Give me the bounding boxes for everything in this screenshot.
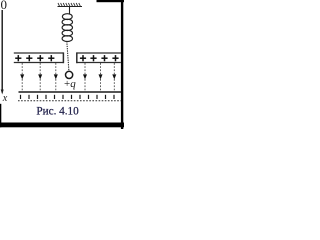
top plate right segment (77, 52, 121, 63)
border bottom bar (0, 123, 124, 128)
arrowheads on field lines (20, 74, 116, 79)
border left lower (0, 104, 1, 128)
svg-text:0: 0 (1, 0, 8, 12)
ceiling line (58, 6, 83, 8)
bottom plate bottom line (18, 100, 121, 102)
ceiling hatching (58, 3, 80, 6)
top plate left segment (14, 52, 64, 63)
border top-right wedge (97, 0, 125, 2)
bottom plate top line (19, 91, 121, 93)
plus signs right plate (80, 55, 119, 61)
svg-text:x: x (2, 93, 8, 104)
spring coil (62, 14, 72, 42)
spring bottom wire (67, 41, 69, 71)
axis arrowhead (1, 90, 4, 95)
charge ball (66, 71, 73, 78)
bottom plate hatch ticks (21, 95, 115, 99)
field lines right (85, 63, 114, 92)
border right (121, 0, 123, 129)
spring top wire (69, 7, 71, 15)
svg-text:Рис. 4.10: Рис. 4.10 (36, 105, 79, 117)
field lines left (22, 63, 56, 92)
axis line x (1, 10, 3, 93)
plus signs left plate (15, 55, 54, 61)
svg-text:+q: +q (64, 78, 76, 90)
